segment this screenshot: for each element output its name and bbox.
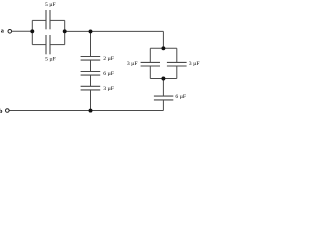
capacitor C4 6uF plates	[81, 71, 101, 73]
junction dot bottom rail chain	[89, 109, 93, 113]
terminal b circle	[6, 109, 10, 113]
capacitor C1 5uF top: left lead	[32, 19, 46, 21]
svg-text:a: a	[1, 28, 4, 35]
junction dot right box top	[161, 46, 165, 50]
wire top rail right corner down	[162, 31, 164, 48]
wire a to left junction	[12, 30, 33, 32]
capacitor C3 2uF plates	[81, 56, 101, 58]
wire left box right vertical	[64, 20, 66, 44]
terminal a circle	[8, 30, 12, 34]
svg-text:3 µF: 3 µF	[103, 86, 114, 92]
svg-text:2 µF: 2 µF	[103, 56, 114, 62]
capacitor C5 3uF plates	[81, 85, 101, 87]
wire chain segment	[90, 60, 92, 71]
capacitor C8 6uF plates	[154, 95, 173, 97]
capacitor C1 5uF top: plates	[45, 10, 47, 29]
wire right box bottom to C8	[162, 79, 164, 97]
wire right box right branch lower	[176, 66, 178, 79]
junction dot node a to C1 C2	[30, 29, 34, 33]
junction dot rail to chain	[89, 29, 93, 33]
wire right box right branch upper	[176, 48, 178, 62]
capacitor C1 5uF top: right lead	[50, 19, 65, 21]
wire right box left branch upper	[149, 48, 151, 62]
capacitor C2 5uF bottom: right lead	[50, 44, 65, 46]
junction dot C1 C2 to rail	[63, 29, 67, 33]
wire top rail	[65, 30, 164, 32]
capacitor C2 5uF bottom: plates	[45, 35, 47, 54]
wire right box left branch lower	[149, 66, 151, 79]
svg-text:5 µF: 5 µF	[45, 2, 56, 8]
capacitor C6 3uF left plates	[141, 61, 160, 63]
svg-text:6 µF: 6 µF	[175, 94, 186, 100]
svg-text:6 µF: 6 µF	[103, 71, 114, 77]
svg-text:b: b	[0, 108, 3, 115]
capacitor C2 5uF bottom: left lead	[32, 44, 46, 46]
capacitor C7 3uF right plates	[167, 61, 187, 63]
wire right box top	[150, 47, 177, 49]
junction dot right box bottom	[161, 77, 165, 81]
wire C8 to bottom rail	[162, 100, 164, 111]
svg-text:3 µF: 3 µF	[127, 61, 138, 67]
wire right box bottom	[150, 78, 177, 80]
wire middle chain top	[90, 31, 92, 56]
wire left box left vertical	[31, 20, 33, 44]
wire chain segment	[90, 75, 92, 86]
wire chain bottom	[90, 90, 92, 111]
svg-text:5 µF: 5 µF	[45, 56, 56, 62]
svg-text:3 µF: 3 µF	[189, 61, 200, 67]
wire bottom rail	[9, 110, 163, 112]
